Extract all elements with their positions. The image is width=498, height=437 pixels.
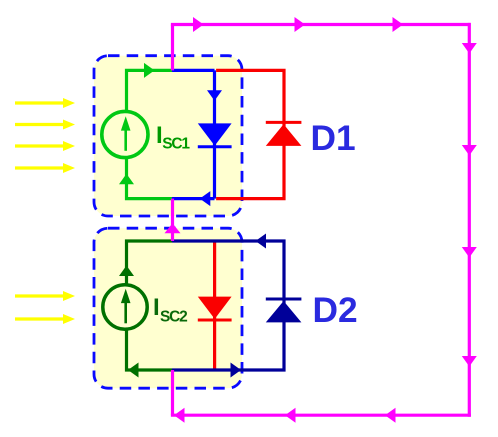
diode internal cell2 (red, pointing down): [198, 297, 232, 320]
ISC1 internal arrow: [121, 116, 131, 151]
diode D2 (navy, pointing up): [266, 299, 302, 322]
flow arrow right 1: [462, 43, 477, 54]
wire: cell1 blue top: [172, 69, 215, 72]
current flow arrow on cell2 top-left vertical: [119, 266, 134, 277]
wire: magenta bottom stub (below cell2): [171, 370, 174, 415]
wire: magenta middle stub (between cells): [171, 199, 174, 241]
flow arrow top 2: [295, 17, 306, 32]
flow arrow bottom 1: [174, 408, 185, 423]
diode internal cell1 (blue, pointing down): [198, 123, 232, 146]
flow arrow bottom 2: [285, 408, 296, 423]
solar cell 1 dashed border: [94, 56, 242, 216]
light arrow 4 (cell 1): [15, 163, 75, 173]
current source ISC2: [103, 285, 147, 329]
light arrow 5 (cell 2): [15, 291, 75, 301]
current flow arrow on D2 top wire: [256, 234, 267, 249]
current flow arrow on cell1 top wire: [144, 63, 155, 78]
diode D1 (red, pointing up): [266, 122, 302, 145]
flow arrow top 1: [193, 17, 204, 32]
label ISC2: [153, 294, 187, 326]
svg-text:SC2: SC2: [160, 309, 187, 326]
solar cell 2 dashed border: [94, 228, 242, 388]
flow arrow right 2: [462, 145, 477, 156]
wire: magenta top horizontal: [171, 23, 471, 26]
wire: magenta right vertical: [468, 23, 471, 417]
wire: magenta string loop top stub: [171, 25, 174, 71]
flow arrow middle stub: [165, 223, 181, 233]
svg-text:I: I: [153, 294, 160, 321]
wire: cell1 green bottom (source bottom to node): [127, 158, 173, 198]
wire: magenta bottom horizontal: [171, 414, 471, 417]
label ISC1: [156, 122, 190, 153]
flow arrow right 3: [462, 247, 477, 258]
current flow arrow on D2 bottom wire: [231, 363, 242, 378]
current flow arrow on cell1 bottom-left wire: [119, 174, 134, 185]
flow arrow right 4: [462, 356, 477, 367]
light arrow 6 (cell 2): [15, 314, 75, 324]
wire: cell2 green bottom (source bottom to node): [127, 330, 173, 370]
ISC2 internal arrow: [121, 289, 131, 324]
flow arrow bottom 3: [385, 408, 396, 423]
wire: D1 red loop: [216, 70, 284, 198]
wire: cell1 green top (source top to node): [127, 70, 173, 110]
current flow arrow on cell1 bottom wire: [200, 191, 211, 206]
wire: cell1 blue bottom: [172, 197, 215, 200]
solar cell 2 body fill: [94, 228, 242, 388]
wire: cell2 green top (source top to node): [127, 241, 173, 284]
wire: cell2 red vertical (internal diode branch): [213, 241, 216, 370]
flow arrow top 3: [393, 17, 404, 32]
current source ISC1: [102, 111, 148, 157]
wire: cell1 blue vertical (internal diode branch): [213, 70, 216, 198]
svg-text:SC1: SC1: [162, 136, 190, 153]
current flow arrow on blue vertical: [207, 90, 222, 101]
light arrow 1 (cell 1): [15, 98, 75, 108]
solar cell 1 body fill: [94, 56, 242, 216]
current flow arrow on cell2 bottom-left wire: [128, 363, 139, 378]
svg-text:D2: D2: [313, 291, 358, 330]
light arrow 3 (cell 1): [15, 141, 75, 151]
svg-text:D1: D1: [311, 119, 356, 158]
light arrow 2 (cell 1): [15, 120, 75, 130]
wire: D2 navy loop: [172, 241, 284, 370]
